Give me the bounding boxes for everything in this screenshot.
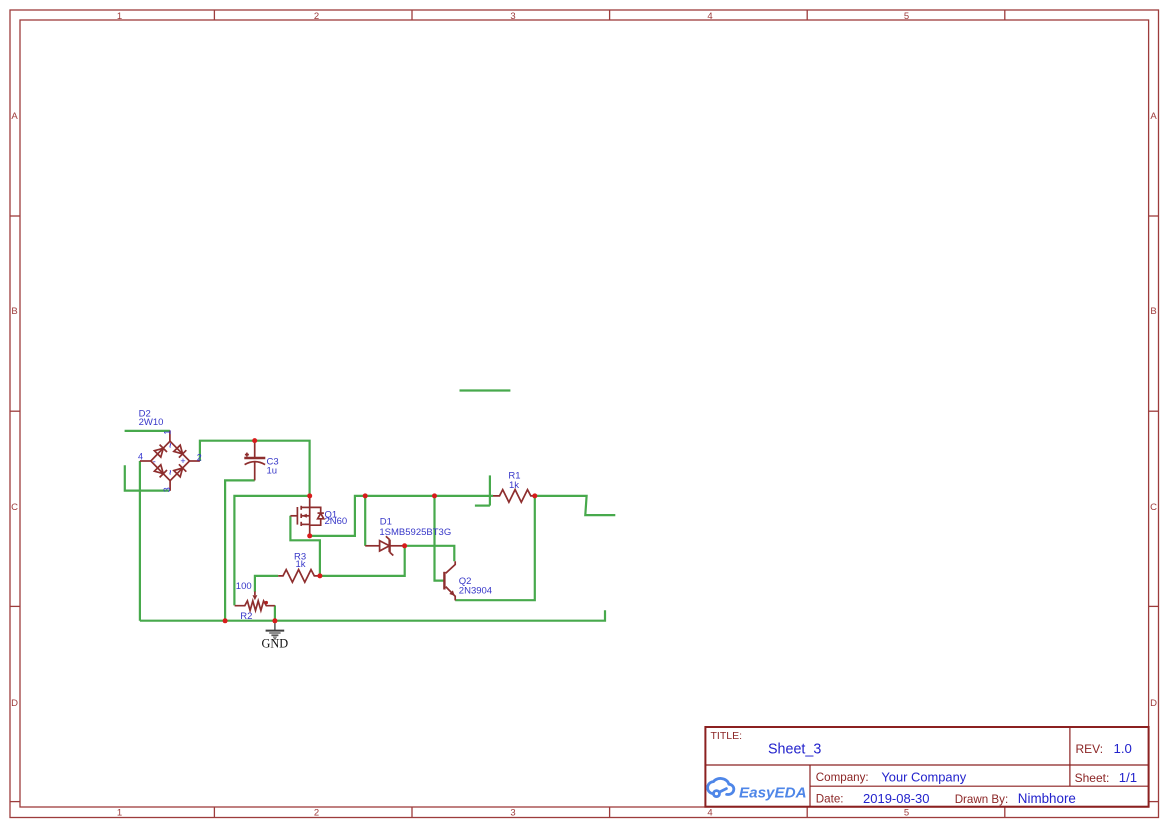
svg-text:~: ~ (165, 470, 175, 475)
svg-text:C: C (11, 502, 18, 513)
svg-text:Drawn By:: Drawn By: (955, 793, 1008, 806)
svg-text:B: B (1150, 306, 1156, 317)
svg-text:5: 5 (904, 808, 909, 819)
svg-text:D: D (1150, 698, 1157, 709)
svg-text:4: 4 (707, 11, 712, 22)
svg-text:EasyEDA: EasyEDA (739, 785, 807, 802)
svg-text:-: - (153, 457, 156, 467)
svg-text:+: + (180, 456, 185, 466)
svg-text:2N60: 2N60 (325, 516, 348, 527)
svg-text:1: 1 (117, 808, 122, 819)
svg-text:1/1: 1/1 (1119, 770, 1137, 785)
svg-text:REV:: REV: (1076, 742, 1104, 756)
svg-text:~: ~ (165, 443, 175, 448)
svg-text:Date:: Date: (816, 793, 844, 806)
svg-text:2W10: 2W10 (139, 417, 164, 428)
svg-text:2: 2 (197, 452, 202, 462)
svg-text:2: 2 (314, 808, 319, 819)
svg-text:Sheet_3: Sheet_3 (768, 742, 821, 758)
svg-text:1k: 1k (296, 559, 306, 570)
svg-text:3: 3 (510, 11, 515, 22)
svg-text:3: 3 (162, 487, 172, 492)
svg-text:2N3904: 2N3904 (459, 585, 492, 596)
svg-text:1: 1 (117, 11, 122, 22)
svg-text:1SMB5925BT3G: 1SMB5925BT3G (379, 527, 451, 538)
svg-text:1: 1 (162, 430, 172, 435)
svg-text:Company:: Company: (816, 771, 869, 784)
svg-text:C: C (1150, 502, 1157, 513)
svg-text:1k: 1k (509, 480, 519, 491)
svg-text:100: 100 (236, 581, 252, 592)
svg-text:4: 4 (707, 808, 712, 819)
svg-text:GND: GND (261, 636, 288, 650)
svg-text:R2: R2 (240, 611, 252, 622)
svg-text:A: A (11, 111, 18, 122)
svg-text:2: 2 (314, 11, 319, 22)
svg-text:5: 5 (904, 11, 909, 22)
svg-text:2019-08-30: 2019-08-30 (863, 791, 930, 806)
svg-text:Your Company: Your Company (881, 769, 966, 784)
svg-text:1.0: 1.0 (1114, 741, 1132, 756)
svg-text:TITLE:: TITLE: (711, 730, 743, 742)
svg-text:Sheet:: Sheet: (1075, 771, 1110, 785)
svg-text:4: 4 (138, 451, 143, 461)
svg-text:B: B (11, 306, 17, 317)
svg-text:Nimbhore: Nimbhore (1018, 791, 1076, 806)
svg-text:1u: 1u (267, 466, 278, 477)
svg-text:3: 3 (510, 808, 515, 819)
svg-text:D: D (11, 698, 18, 709)
svg-text:D1: D1 (380, 516, 392, 527)
svg-text:A: A (1150, 111, 1157, 122)
